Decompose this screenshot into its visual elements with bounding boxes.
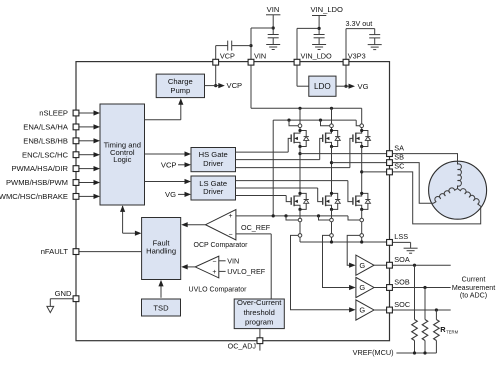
svg-text:nFAULT: nFAULT — [41, 247, 69, 256]
svg-text:Current: Current — [462, 276, 486, 284]
svg-text:VIN_LDO: VIN_LDO — [301, 52, 333, 61]
svg-text:VG: VG — [358, 82, 369, 91]
svg-text:VIN_LDO: VIN_LDO — [310, 5, 343, 14]
svg-text:Over-Current: Over-Current — [237, 298, 282, 307]
svg-text:Pump: Pump — [170, 86, 190, 95]
svg-text:GND: GND — [55, 289, 72, 298]
svg-text:OCP Comparator: OCP Comparator — [194, 242, 249, 249]
svg-text:SOC: SOC — [394, 300, 410, 309]
svg-text:ENA/LSA/HA: ENA/LSA/HA — [23, 123, 69, 132]
svg-text:VIN: VIN — [267, 5, 280, 14]
svg-text:Driver: Driver — [203, 187, 224, 196]
svg-text:SOB: SOB — [394, 277, 410, 286]
svg-text:LDO: LDO — [314, 82, 331, 91]
svg-text:VCP: VCP — [220, 52, 235, 61]
svg-text:G: G — [359, 306, 365, 315]
svg-text:SOA: SOA — [394, 255, 410, 264]
svg-text:UVLO Comparator: UVLO Comparator — [189, 287, 248, 294]
svg-text:Driver: Driver — [203, 159, 224, 168]
svg-text:VIN: VIN — [254, 52, 266, 61]
svg-text:VCP: VCP — [161, 160, 177, 169]
svg-text:VIN: VIN — [227, 256, 239, 265]
svg-text:VG: VG — [165, 190, 176, 199]
svg-text:SA: SA — [394, 143, 404, 152]
svg-text:−: − — [229, 232, 233, 239]
svg-text:(to ADC): (to ADC) — [460, 291, 487, 299]
svg-text:VCP: VCP — [227, 81, 243, 90]
svg-text:LSS: LSS — [394, 232, 408, 241]
svg-text:OC_ADJ: OC_ADJ — [228, 341, 257, 350]
svg-text:PWMB/HSB/PWM: PWMB/HSB/PWM — [6, 178, 68, 187]
svg-text:G: G — [359, 261, 365, 270]
svg-text:+: + — [212, 269, 216, 276]
svg-text:UVLO_REF: UVLO_REF — [227, 267, 266, 276]
svg-text:Charge: Charge — [168, 77, 193, 86]
svg-text:Logic: Logic — [113, 155, 131, 164]
svg-text:TERM: TERM — [446, 330, 458, 335]
svg-text:−: − — [212, 259, 216, 266]
svg-text:PWMA/HSA/DIR: PWMA/HSA/DIR — [11, 164, 68, 173]
svg-text:TSD: TSD — [153, 303, 169, 312]
svg-text:ENC/LSC/HC: ENC/LSC/HC — [22, 150, 69, 159]
svg-text:program: program — [245, 318, 273, 327]
svg-text:V3P3: V3P3 — [348, 52, 366, 61]
svg-text:OC_REF: OC_REF — [241, 223, 271, 232]
svg-text:G: G — [359, 283, 365, 292]
svg-text:threshold: threshold — [244, 308, 275, 317]
svg-text:3.3V out: 3.3V out — [346, 19, 373, 28]
svg-text:+: + — [229, 213, 233, 220]
svg-text:VREF(MCU): VREF(MCU) — [353, 348, 394, 357]
svg-text:Handling: Handling — [146, 246, 176, 255]
svg-text:nSLEEP: nSLEEP — [39, 109, 68, 118]
svg-text:ENB/LSB/HB: ENB/LSB/HB — [23, 136, 68, 145]
svg-text:PWMC/HSC/nBRAKE: PWMC/HSC/nBRAKE — [0, 192, 68, 201]
